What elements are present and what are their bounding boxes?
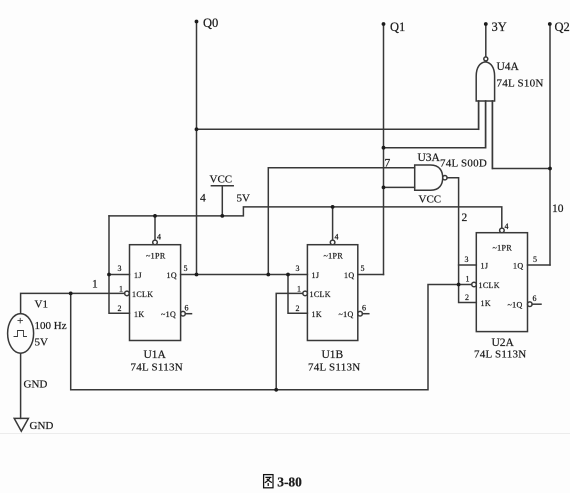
svg-text:5: 5	[184, 264, 188, 273]
svg-text:3Y: 3Y	[492, 20, 507, 34]
svg-text:4: 4	[505, 222, 509, 231]
wire U3A input A from node 7 to Q0 net	[268, 168, 414, 275]
svg-text:1J: 1J	[134, 271, 142, 280]
svg-text:4: 4	[200, 193, 206, 205]
svg-text:7: 7	[385, 158, 391, 170]
junction U1B PR	[331, 205, 335, 209]
wire U4A input A horizontal from Q0	[197, 101, 479, 129]
wire U1A 1J branch	[109, 274, 130, 276]
wire U3A output to U2A J/K	[447, 178, 476, 303]
svg-text:U3A: U3A	[418, 152, 441, 164]
svg-text:1Q: 1Q	[513, 261, 523, 270]
wire 3Y to U4A output	[485, 24, 487, 57]
gate U3A (2-input NAND)	[415, 165, 447, 190]
svg-text:~1PR: ~1PR	[493, 244, 513, 253]
svg-text:1: 1	[297, 285, 301, 294]
junction VCC stub	[220, 214, 224, 218]
svg-text:U1B: U1B	[322, 349, 344, 361]
svg-text:2: 2	[462, 212, 468, 224]
flip-flop U2A body	[472, 228, 541, 332]
caption hanzi TU (drawn)	[264, 475, 273, 488]
svg-text:1: 1	[466, 275, 470, 284]
svg-text:6: 6	[185, 304, 189, 313]
svg-text:5V: 5V	[35, 337, 49, 349]
wire Q2 vertical	[549, 24, 551, 265]
svg-text:3: 3	[465, 255, 469, 264]
junction U1A PR	[153, 214, 157, 218]
svg-text:3-80: 3-80	[277, 474, 302, 489]
wire Q0 vertical	[196, 22, 198, 275]
junction U1B J/K tie	[286, 273, 290, 277]
svg-text:2: 2	[465, 293, 469, 302]
svg-text:5V: 5V	[237, 193, 251, 205]
junction clock branch at V1	[69, 292, 73, 296]
svg-text:~1Q: ~1Q	[339, 310, 354, 319]
junction Q2 / U4A input	[548, 167, 552, 171]
junction U3A input / 1Q bus	[266, 273, 270, 277]
svg-text:1: 1	[119, 285, 123, 294]
svg-text:Q2: Q2	[555, 20, 570, 34]
flip-flop U1B body	[303, 240, 369, 340]
svg-text:GND: GND	[30, 420, 54, 432]
junction Q1 / U3A input	[382, 186, 386, 190]
svg-text:Q0: Q0	[203, 16, 218, 30]
svg-text:6: 6	[362, 304, 366, 313]
wire clock feedback bottom rail	[71, 285, 472, 390]
svg-text:V1: V1	[35, 299, 48, 311]
svg-text:74L S113N: 74L S113N	[131, 362, 183, 374]
junction U1A 1J	[107, 273, 111, 277]
wire VCC stub	[221, 186, 223, 216]
node Q1 terminal dot	[382, 22, 386, 26]
svg-text:1Q: 1Q	[167, 271, 177, 280]
junction Q0 / U4A input	[195, 127, 199, 131]
junction Q0 / 1Q bus	[195, 273, 199, 277]
svg-text:VCC: VCC	[419, 194, 442, 206]
wire V1 to U1A CLK	[21, 293, 125, 313]
svg-text:1CLK: 1CLK	[310, 290, 331, 299]
wire U3A input B from Q1	[384, 186, 415, 188]
junction U2A CLK crossing	[457, 283, 461, 287]
wire U1A J/K tie to VCC	[109, 216, 130, 313]
svg-text:2: 2	[296, 304, 300, 313]
decorative faint rule	[0, 433, 570, 435]
svg-text:2: 2	[118, 304, 122, 313]
svg-text:U1A: U1A	[144, 349, 167, 361]
svg-text:3: 3	[118, 264, 122, 273]
wire U1A 1Q bus to U1B 1J	[181, 274, 308, 276]
svg-text:1Q: 1Q	[344, 271, 354, 280]
svg-text:1CLK: 1CLK	[132, 290, 153, 299]
svg-text:U4A: U4A	[497, 61, 520, 73]
wire Q1 vertical	[383, 24, 385, 275]
wire U2A 1Q to Q2	[528, 264, 551, 266]
wire VCC net 4 and 5V rail	[109, 207, 502, 228]
svg-text:1: 1	[92, 279, 98, 291]
junction Q1 / U4A input	[382, 146, 386, 150]
svg-text:~1PR: ~1PR	[146, 252, 166, 261]
svg-text:4: 4	[157, 233, 161, 242]
svg-text:74L S00D: 74L S00D	[440, 158, 487, 170]
ground symbol	[14, 418, 28, 431]
junction U1B CLK / bottom rail	[274, 388, 278, 392]
svg-text:VCC: VCC	[210, 174, 233, 186]
wire U2A 1J branch	[459, 264, 477, 266]
wire U1B PR stub	[332, 207, 334, 240]
source V1 clock	[8, 314, 34, 354]
node Q2 terminal dot	[548, 22, 552, 26]
svg-text:1J: 1J	[312, 271, 320, 280]
svg-text:1CLK: 1CLK	[479, 281, 500, 290]
svg-text:1K: 1K	[481, 299, 491, 308]
svg-text:1K: 1K	[312, 310, 322, 319]
svg-text:10: 10	[552, 203, 564, 215]
svg-text:74L S113N: 74L S113N	[308, 362, 360, 374]
svg-text:100 Hz: 100 Hz	[35, 320, 67, 332]
node Q0 terminal dot	[195, 20, 199, 24]
svg-text:5: 5	[361, 264, 365, 273]
svg-text:~1Q: ~1Q	[508, 300, 523, 309]
svg-text:Q1: Q1	[390, 20, 405, 34]
wire U1B J/K tie	[288, 275, 307, 314]
svg-text:4: 4	[335, 233, 339, 242]
svg-text:~1PR: ~1PR	[324, 252, 344, 261]
svg-text:U2A: U2A	[492, 337, 515, 349]
op-amp U4A gate body (3-input NAND)	[476, 57, 494, 169]
wire V1 to ground	[20, 353, 22, 418]
wire U4A input C horizontal to Q2	[492, 101, 550, 169]
svg-text:1K: 1K	[134, 310, 144, 319]
node 3Y terminal dot	[484, 22, 488, 26]
svg-text:74L S113N: 74L S113N	[474, 349, 526, 361]
wire U4A input B horizontal from Q1	[384, 101, 486, 148]
svg-text:5: 5	[533, 255, 537, 264]
svg-text:~1Q: ~1Q	[161, 310, 176, 319]
svg-text:GND: GND	[24, 379, 48, 391]
flip-flop U1A body	[125, 240, 192, 340]
wire U1B 1Q to Q1	[358, 274, 384, 276]
svg-text:3: 3	[296, 264, 300, 273]
svg-text:74L S10N: 74L S10N	[497, 78, 544, 90]
wire U1B CLK drop	[276, 293, 303, 389]
svg-text:1J: 1J	[481, 261, 489, 270]
svg-text:6: 6	[533, 294, 537, 303]
wire U1A PR stub	[154, 216, 156, 240]
power VCC symbol	[211, 185, 233, 187]
